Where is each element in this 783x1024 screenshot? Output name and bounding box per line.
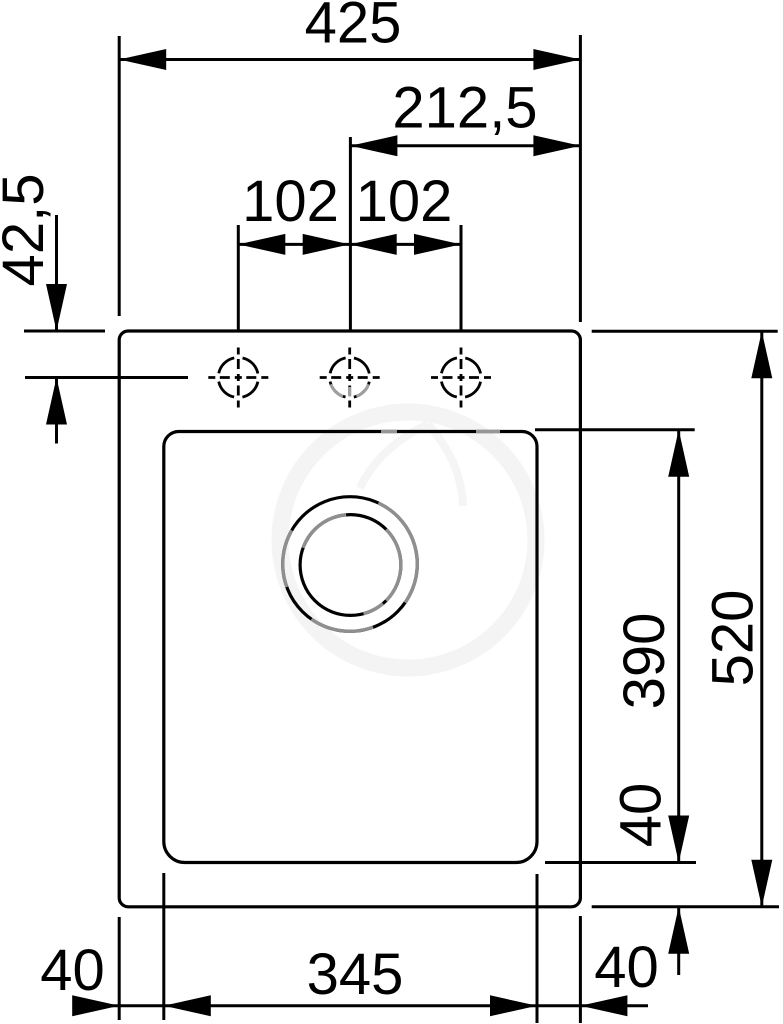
- arrowhead 425 right: [533, 49, 580, 70]
- tap hole 2 vertical centerline: [348, 348, 351, 408]
- dimension line 102 right: [350, 243, 461, 246]
- extension line middle tap centre: [349, 137, 352, 331]
- extension line bottom bowl-right: [536, 874, 539, 1023]
- svg-text:520: 520: [701, 590, 766, 687]
- extension line bowl top right: [535, 428, 695, 431]
- watermark gray arc on drain outer circle left: [283, 530, 292, 587]
- watermark gray arc on drain outer circle bottom: [311, 619, 373, 631]
- dimension line 390: [677, 430, 680, 863]
- extension line 102 right: [460, 225, 463, 331]
- arrowhead 212,5 left: [350, 135, 397, 156]
- watermark gray arc on drain inner circle right: [386, 529, 401, 600]
- drain outer circle: [283, 497, 418, 632]
- svg-text:40: 40: [594, 935, 659, 1000]
- drain inner circle: [300, 515, 401, 616]
- tap hole 1 horizontal centerline: [208, 376, 268, 379]
- tap hole 2 horizontal centerline: [320, 376, 380, 379]
- tap hole 1 dashed circle: [218, 358, 258, 398]
- watermark gray arc on drain inner circle bottom-right: [364, 604, 383, 614]
- tap hole 3 dashed circle: [441, 358, 481, 398]
- extension line 102 left: [237, 225, 240, 331]
- dimension line 40 right stub: [677, 907, 680, 975]
- bottom dimension line: [86, 1004, 648, 1007]
- svg-text:345: 345: [307, 942, 404, 1007]
- dimension line 42,5 lower: [55, 378, 58, 444]
- arrowhead 102-left right: [303, 234, 350, 255]
- arrowhead 40 right up: [668, 907, 689, 954]
- arrowhead bottom 345 left: [164, 995, 211, 1016]
- tap hole 2 dashed circle: [330, 358, 370, 398]
- watermark gray arc on drain inner circle top-left: [303, 515, 346, 548]
- extension line bottom outer-left: [118, 917, 121, 1020]
- svg-text:425: 425: [305, 0, 402, 56]
- watermark gray segment on bowl top edge right: [476, 430, 500, 433]
- arrowhead 42,5 up: [46, 378, 67, 425]
- extension line 520 bottom: [592, 905, 779, 908]
- arrowhead 102-left left: [238, 234, 285, 255]
- extension tick sink top edge left: [24, 330, 105, 333]
- extension line bowl bottom right: [545, 861, 696, 864]
- watermark gray segment on bowl top edge left: [381, 430, 397, 433]
- watermark gray dash on tap hole 2 vertical centerline: [348, 387, 351, 397]
- tap hole 3 horizontal centerline: [431, 376, 491, 379]
- dimension line 42,5 upper: [55, 215, 58, 331]
- svg-text:390: 390: [612, 613, 677, 710]
- extension line bottom outer-right: [579, 916, 582, 1023]
- svg-text:102: 102: [242, 169, 339, 234]
- arrowhead 102-right left: [350, 234, 397, 255]
- extension line 520 top: [592, 330, 778, 333]
- arrowhead bottom 345 right: [490, 995, 537, 1016]
- extension centerline tap row left: [25, 376, 188, 379]
- watermark gray arc on drain outer circle right: [378, 503, 417, 603]
- svg-text:40: 40: [40, 938, 105, 1003]
- arrowhead 425 left: [119, 49, 166, 70]
- dimension line 212,5: [350, 144, 580, 147]
- dimension line 102 left: [238, 243, 349, 246]
- arrowhead 212,5 right: [533, 135, 580, 156]
- svg-text:40: 40: [609, 783, 674, 848]
- arrowhead 520 up: [751, 331, 772, 378]
- extension line bottom bowl-left: [162, 873, 165, 1020]
- svg-text:42,5: 42,5: [0, 174, 56, 287]
- arrowhead 520 down: [751, 860, 772, 907]
- watermark gray arc on tap hole 2 circle bottom-left: [331, 384, 343, 396]
- dimension line 520: [760, 331, 763, 907]
- outer sink outline: [119, 331, 580, 907]
- arrowhead 42,5 down: [46, 284, 67, 331]
- arrowhead bottom 40-right outside: [580, 995, 627, 1016]
- svg-text:212,5: 212,5: [392, 76, 537, 141]
- watermark droplet outline: [360, 424, 463, 506]
- watermark gray arc on tap hole 2 circle bottom-right: [357, 384, 369, 396]
- svg-text:102: 102: [356, 169, 453, 234]
- tap hole 3 vertical centerline: [460, 348, 463, 408]
- tap hole 1 vertical centerline: [237, 348, 240, 408]
- dimension line 425: [119, 58, 580, 61]
- arrowhead bottom 40-left outside: [72, 995, 119, 1016]
- extension line 425 and 212,5 right: [579, 35, 582, 322]
- arrowhead 102-right right: [414, 234, 461, 255]
- extension line 425 left: [118, 36, 121, 316]
- arrowhead 390 up: [668, 430, 689, 477]
- inner bowl outline: [164, 432, 537, 863]
- watermark big circle: [280, 412, 536, 668]
- arrowhead 390 down: [668, 816, 689, 863]
